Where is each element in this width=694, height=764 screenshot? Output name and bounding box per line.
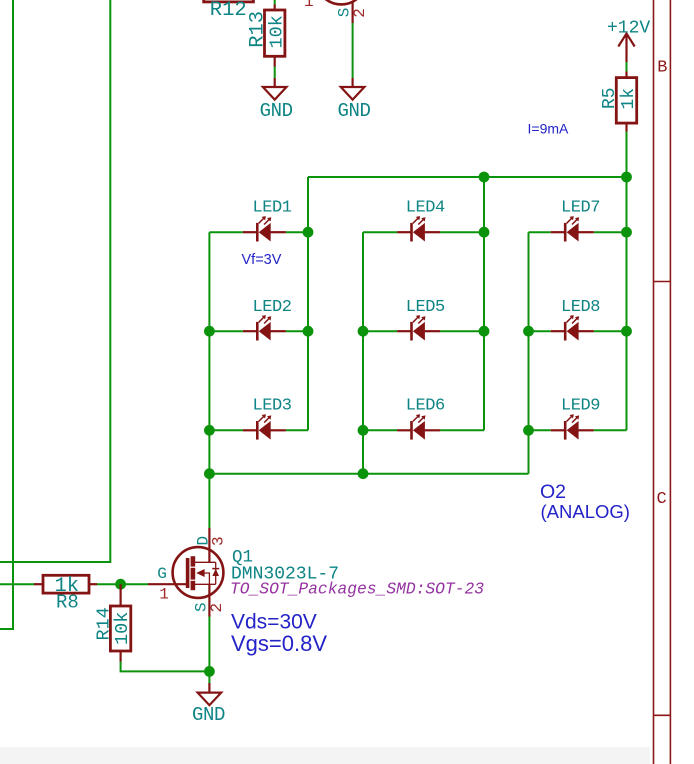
resistor R8 — [43, 575, 89, 593]
svg-text:R8: R8 — [56, 592, 79, 614]
svg-text:1k: 1k — [619, 88, 639, 110]
resistor R8 pin stubs — [34, 583, 43, 585]
junction LED8 anode — [523, 326, 534, 337]
wire LED9 cathode — [594, 429, 627, 431]
svg-text:Vf=3V: Vf=3V — [242, 252, 282, 268]
svg-text:GND: GND — [192, 704, 225, 726]
ground pin stub — [208, 683, 210, 693]
svg-text:LED8: LED8 — [561, 298, 600, 317]
svg-text:I=9mA: I=9mA — [528, 121, 570, 137]
svg-text:R12: R12 — [210, 0, 247, 22]
wire LED6 cathode — [440, 429, 484, 431]
resistor R14 pin stubs — [119, 584, 121, 606]
resistor R13 pin stubs — [274, 5, 276, 11]
svg-text:LED4: LED4 — [406, 199, 445, 218]
resistor R13 — [265, 10, 285, 56]
LED D5 (LED5) — [397, 315, 440, 340]
svg-text:LED6: LED6 — [406, 396, 445, 415]
junction bottom bus / column1 — [204, 468, 215, 479]
svg-text:Vgs=0.8V: Vgs=0.8V — [231, 631, 327, 656]
Q2 source pin — [352, 1, 354, 23]
svg-text:LED3: LED3 — [253, 396, 292, 415]
junction top bus / column2 — [479, 172, 490, 183]
wire LED6 anode — [363, 429, 397, 431]
wire R13 to GND — [274, 67, 276, 79]
wire R8 to Q1 gate — [97, 583, 148, 585]
LED D3 (LED3) — [243, 414, 286, 439]
wire anode bottom bus — [209, 473, 528, 475]
wire LED8 anode — [529, 330, 551, 332]
wire LED7 anode — [529, 231, 551, 233]
svg-text:C: C — [657, 490, 667, 509]
ground pin stub — [352, 78, 354, 87]
junction LED4 cathode — [479, 227, 490, 238]
wire LED1 cathode — [286, 231, 308, 233]
wire LED5 anode — [363, 330, 397, 332]
svg-text:LED7: LED7 — [561, 199, 600, 218]
wire left net — [0, 0, 13, 629]
svg-text:3: 3 — [210, 536, 228, 546]
svg-text:LED9: LED9 — [561, 396, 600, 415]
wire LED5 cathode — [440, 330, 484, 332]
junction LED2 cathode — [303, 326, 314, 337]
wire column3 cathode rail — [626, 177, 628, 430]
wire LED7 cathode — [594, 231, 627, 233]
junction LED5 cathode — [479, 326, 490, 337]
wire column2 cathode rail — [483, 177, 485, 430]
junction LED6 anode — [358, 425, 369, 436]
svg-text:10k: 10k — [112, 612, 133, 645]
resistor R5 — [616, 78, 636, 124]
svg-text:TO_SOT_Packages_SMD:SOT-23: TO_SOT_Packages_SMD:SOT-23 — [230, 580, 484, 599]
resistor R12 (partial) — [204, 0, 254, 2]
resistor R14 — [110, 606, 130, 651]
wire LED2 cathode — [286, 330, 308, 332]
svg-text:LED1: LED1 — [253, 199, 292, 218]
wire R13 top — [274, 0, 276, 5]
junction gate / R14 — [115, 579, 126, 590]
svg-text:1: 1 — [304, 0, 314, 11]
transistor Q1 — [173, 528, 224, 617]
wire LED1 anode — [209, 231, 243, 233]
junction LED9 anode — [523, 425, 534, 436]
junction LED5 anode — [358, 326, 369, 337]
junction LED3 anode — [204, 425, 215, 436]
LED D6 (LED6) — [397, 414, 440, 439]
transistor Q2 (partial, off-canvas) — [316, 0, 367, 4]
LED D8 (LED8) — [551, 315, 594, 340]
wire +12V to R5 — [626, 62, 628, 72]
ground GND — [341, 87, 365, 100]
wire LED4 cathode — [440, 231, 484, 233]
svg-text:GND: GND — [338, 100, 371, 122]
ground GND — [198, 693, 222, 706]
wire LED4 anode — [363, 231, 397, 233]
wire LED3 anode — [209, 429, 243, 431]
wire to R8 — [0, 583, 34, 585]
svg-text:+12V: +12V — [607, 19, 650, 39]
LED D2 (LED2) — [243, 315, 286, 340]
junction LED7 cathode — [621, 227, 632, 238]
wire R14 to source node — [121, 662, 210, 672]
wire column3 anode rail — [528, 232, 530, 474]
ground pin stub — [274, 78, 276, 87]
wire net to R8 branch — [0, 0, 110, 562]
junction source / R14 / GND — [204, 666, 215, 677]
junction LED8 cathode — [621, 326, 632, 337]
junction R5 / top bus / column3 — [621, 172, 632, 183]
wire source node to GND — [208, 671, 210, 683]
ground GND — [263, 87, 287, 100]
wire anode top bus — [308, 176, 627, 178]
wire R5 to LED bus — [626, 132, 628, 178]
wire LED3 cathode — [286, 429, 308, 431]
svg-text:G: G — [157, 565, 167, 583]
svg-text:LED5: LED5 — [406, 298, 445, 317]
svg-text:10k: 10k — [267, 15, 288, 48]
wire LED8 cathode — [594, 330, 627, 332]
LED D9 (LED9) — [551, 414, 594, 439]
svg-text:(ANALOG): (ANALOG) — [541, 501, 630, 522]
resistor R5 pin stubs — [625, 72, 627, 78]
svg-text:B: B — [657, 59, 667, 78]
LED D1 (LED1) — [243, 216, 286, 241]
LED D7 (LED7) — [551, 216, 594, 241]
junction bottom bus / column2 — [358, 468, 369, 479]
svg-text:O2: O2 — [540, 481, 566, 503]
wire Q1 source down — [208, 617, 210, 672]
svg-text:LED2: LED2 — [253, 298, 292, 317]
junction LED2 anode — [204, 326, 215, 337]
power +12V — [618, 34, 634, 63]
wire column1 anode rail to Q1 drain — [208, 232, 210, 528]
wire LED9 anode — [529, 429, 551, 431]
wire Q2 source to GND — [352, 23, 354, 78]
wire column1 cathode rail — [307, 177, 309, 430]
svg-text:GND: GND — [260, 100, 293, 122]
svg-text:R5: R5 — [600, 87, 620, 109]
LED D4 (LED4) — [397, 216, 440, 241]
wire LED2 anode — [209, 330, 243, 332]
junction LED1 cathode — [303, 227, 314, 238]
svg-text:2: 2 — [208, 603, 226, 613]
wire column2 anode rail — [362, 232, 364, 474]
Q1 gate pin — [148, 583, 188, 585]
svg-text:2: 2 — [351, 8, 369, 18]
svg-text:1: 1 — [159, 585, 169, 603]
